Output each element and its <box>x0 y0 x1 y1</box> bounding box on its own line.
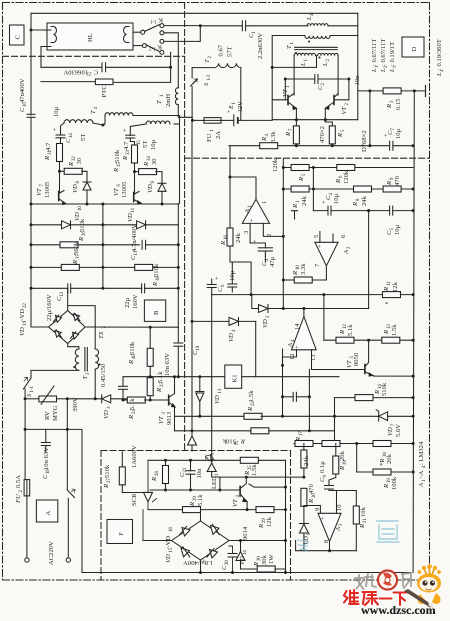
svg-text:PTC: PTC <box>101 85 108 98</box>
wire lamp right pins <box>133 32 142 45</box>
LED1 <box>206 454 221 490</box>
node T3 secondary to mains row <box>94 397 97 400</box>
svg-text:: 0.67/11T: : 0.67/11T <box>371 39 378 66</box>
svg-text:R: R <box>386 104 393 109</box>
svg-text:+: + <box>214 276 221 280</box>
svg-text:2: 2 <box>345 103 350 106</box>
svg-text:VD: VD <box>303 536 310 545</box>
op-amp A4 <box>287 317 317 362</box>
svg-text:1-2: 1-2 <box>207 74 212 81</box>
resistor R21 10k <box>353 491 368 551</box>
capacitor C17b line cap <box>41 429 51 479</box>
svg-text:R: R <box>113 168 120 173</box>
capacitor C12 22u/160V <box>46 284 71 321</box>
capacitor C21b 10n <box>179 460 203 490</box>
svg-text:R: R <box>247 407 254 412</box>
resistor R3 0.15 <box>383 88 402 110</box>
svg-text:2: 2 <box>347 246 352 249</box>
www.dzsc.com text <box>361 603 436 617</box>
lamp HL <box>47 23 133 50</box>
svg-text:T: T <box>156 99 163 104</box>
svg-text:1.5k: 1.5k <box>248 390 255 402</box>
svg-text:1-1: 1-1 <box>30 386 35 393</box>
resistor R8 24k <box>352 186 372 207</box>
svg-text:VD: VD <box>228 333 235 342</box>
resistor R40 510k <box>128 327 153 379</box>
svg-text:24k: 24k <box>235 232 242 243</box>
node starter bus <box>199 24 202 27</box>
capacitor C5b 10u <box>386 206 401 235</box>
capacitor C2 <box>285 75 349 91</box>
svg-text:5.1k: 5.1k <box>197 494 204 506</box>
wire row 210.6 <box>313 168 413 211</box>
svg-text:1.8μ /400V: 1.8μ /400V <box>183 559 213 566</box>
wire bridge1 bottom vertex to T3 left <box>68 344 79 350</box>
svg-text:R: R <box>122 156 129 161</box>
svg-text:14: 14 <box>294 323 301 330</box>
inductor T4 primary <box>90 107 180 204</box>
resistor R28 <box>151 460 169 490</box>
svg-text:510k: 510k <box>153 263 160 277</box>
resistor R30 30k 1W <box>241 554 286 573</box>
svg-text:4: 4 <box>232 329 237 332</box>
svg-text:3: 3 <box>243 230 250 234</box>
resistor R34 30 <box>135 156 163 184</box>
wire x=368.6 feedback <box>368 211 370 309</box>
svg-text:12k: 12k <box>392 281 399 292</box>
node mains node right <box>66 397 69 400</box>
svg-text:30: 30 <box>76 157 83 164</box>
wire L1 left to VT1 collector <box>293 56 295 95</box>
svg-text:~VD: ~VD <box>19 309 26 322</box>
wire A3 output down <box>329 542 331 551</box>
svg-text:VD: VD <box>147 184 154 193</box>
svg-text:47n400V: 47n400V <box>19 78 26 103</box>
svg-text:3.3k: 3.3k <box>300 263 307 275</box>
bridge rectifier 2 <box>172 521 230 560</box>
svg-text:1: 1 <box>261 201 268 204</box>
diode VD11 on row 224.8 <box>127 207 146 229</box>
svg-text:470: 470 <box>394 175 401 186</box>
resistor row443 a <box>295 441 313 447</box>
svg-text:57T: 57T <box>227 46 234 57</box>
wire oscillator box outline <box>272 36 358 120</box>
svg-text:R: R <box>292 204 299 209</box>
resistor R17 24k <box>295 431 310 477</box>
wire C2 to VT2 base <box>334 79 349 100</box>
svg-text:R: R <box>352 202 359 207</box>
svg-text:3: 3 <box>339 523 344 526</box>
svg-text:VD: VD <box>214 395 221 404</box>
ground tick on row 210.6 <box>292 211 298 219</box>
diode VD6 <box>299 524 312 551</box>
wire C4 bottom to rail294 <box>230 248 265 295</box>
svg-text:R: R <box>295 437 302 442</box>
svg-text:S: S <box>26 393 33 397</box>
fuse FU2 0.5A <box>15 475 30 558</box>
svg-text:10μ: 10μ <box>53 106 60 117</box>
capacitor C1 2.2n630V <box>200 21 308 59</box>
svg-text:K1: K1 <box>232 374 239 382</box>
wire x=313.4 connect rows <box>312 168 314 211</box>
svg-text:L: L <box>300 62 307 67</box>
wire supply row y=145.7 <box>229 145 413 147</box>
wire A2 output to R10 <box>313 266 327 280</box>
svg-text:R: R <box>261 137 268 142</box>
svg-text:10n: 10n <box>196 468 203 479</box>
resistor R12 5.1k <box>336 324 354 344</box>
diode VD9 <box>147 181 166 204</box>
resistor R4 3.3k <box>260 131 278 149</box>
svg-text:1.5k: 1.5k <box>251 464 258 476</box>
capacitor C15 10u <box>122 124 157 150</box>
label winding data <box>371 39 398 73</box>
resistor R38 20k on row443 <box>373 441 393 467</box>
wire A4 pin13 down <box>312 350 365 370</box>
svg-text:2: 2 <box>326 59 331 62</box>
resistor R6 120k <box>335 165 355 185</box>
svg-text:510k: 510k <box>104 464 111 478</box>
svg-text:5T: 5T <box>142 141 149 148</box>
inductor T4 winding a 5T <box>64 120 103 141</box>
svg-text:10n 63V: 10n 63V <box>43 447 50 470</box>
capacitor C19 10n 63V <box>164 327 201 377</box>
svg-text:4.7: 4.7 <box>123 141 130 150</box>
svg-text:+: + <box>122 128 129 132</box>
wire x=323.9 from rail294 down <box>323 295 325 341</box>
switch K1-1 <box>145 17 164 35</box>
wire row 288.3 with C12 and C15b <box>31 287 178 289</box>
capacitor C14 10u <box>52 106 74 144</box>
diode VD3 <box>67 395 128 419</box>
wire row 443.5 <box>294 443 413 445</box>
resistor R5a 120k <box>272 158 309 182</box>
wire right rail x=413.1 <box>413 91 414 573</box>
grey char pian <box>402 573 411 588</box>
svg-text:VT: VT <box>158 415 165 424</box>
svg-text:FU: FU <box>206 133 213 142</box>
node C21 wire junction <box>169 66 172 69</box>
wire row 376.7 left part <box>123 376 228 378</box>
wire row 244.8 with R36 and C13 <box>31 218 178 248</box>
resistor row443 b <box>322 441 340 447</box>
wire row 416.3 R22 <box>175 390 414 420</box>
svg-text:19: 19 <box>196 345 201 350</box>
svg-text:D: D <box>411 47 418 52</box>
svg-text:10: 10 <box>78 206 83 211</box>
node R33 bottom <box>133 170 136 173</box>
node row 189 dots <box>282 188 415 191</box>
svg-text:R: R <box>156 388 163 393</box>
wire emitter rail y=204 <box>31 203 178 205</box>
svg-text:1-2: 1-2 <box>149 46 156 51</box>
svg-text:14: 14 <box>69 133 74 138</box>
op-amp A2 <box>313 234 352 267</box>
svg-text:K: K <box>158 17 163 24</box>
svg-text:R: R <box>298 177 305 182</box>
wire row 430.8 R26 <box>175 428 335 445</box>
wire row 460.3 top <box>148 459 286 461</box>
node supply row dots <box>295 144 415 147</box>
svg-text:R: R <box>285 132 292 137</box>
node rail230 A1 output tap <box>229 176 232 179</box>
wire vertical x=192 long return rail <box>191 121 193 431</box>
inductor L4 <box>306 13 358 26</box>
resistor R24 5.1k <box>123 397 168 420</box>
node R31 bottom <box>58 170 61 173</box>
resistor R11 12k <box>383 281 401 298</box>
svg-text:~VD: ~VD <box>165 536 172 549</box>
svg-text:30k: 30k <box>261 554 268 565</box>
resistor R29a 5.1k <box>183 494 205 513</box>
resistor R25 1.5k <box>240 457 285 476</box>
svg-text:13005: 13005 <box>44 181 51 198</box>
node x368 dots <box>367 209 370 212</box>
resistor R13 1.5k <box>382 324 400 344</box>
wire right rail x=178.3 inverter <box>177 203 179 327</box>
resistor R33 4.7 <box>113 141 138 193</box>
svg-text:1: 1 <box>215 473 220 476</box>
svg-text:0.15: 0.15 <box>395 98 402 110</box>
svg-text:VT: VT <box>282 88 289 97</box>
svg-text:2: 2 <box>321 83 326 86</box>
label A1-A4 LM324 <box>418 441 427 488</box>
node row 416.3 dots <box>198 415 414 418</box>
capacitor C17 22u 160V <box>124 284 145 309</box>
svg-text:470×2: 470×2 <box>319 126 326 143</box>
svg-text:1.5k: 1.5k <box>391 324 398 336</box>
svg-text:R: R <box>383 287 390 292</box>
node VT3 collector <box>173 375 176 378</box>
node C23 ends <box>281 395 311 398</box>
watermark logo group <box>344 564 441 617</box>
node row 430.8 dots <box>191 320 311 432</box>
svg-text:VD: VD <box>72 184 79 193</box>
svg-text:2A: 2A <box>215 131 222 139</box>
transistor VT6 13005 <box>113 181 141 204</box>
red circle logo <box>378 571 397 590</box>
op-amp A1 <box>242 199 273 237</box>
svg-text:HL: HL <box>87 33 94 42</box>
transformer T1 core <box>286 41 337 59</box>
switch mains <box>67 489 75 558</box>
capacitor C23 between rails <box>283 392 310 401</box>
svg-text:: 0.19/360T: : 0.19/360T <box>436 39 443 70</box>
wire pin10 lead <box>336 491 338 514</box>
wire row 509.6 <box>148 509 286 511</box>
svg-text:2.2n630V: 2.2n630V <box>257 33 264 59</box>
svg-text:VT: VT <box>113 187 120 196</box>
relay K1 <box>225 365 242 388</box>
resistor R27 510k <box>103 452 125 493</box>
wire VT3 collector to row 376.7 <box>174 377 176 390</box>
svg-text:12k: 12k <box>266 516 273 527</box>
svg-text:3: 3 <box>107 406 112 409</box>
svg-text:28: 28 <box>155 471 160 476</box>
node pin12 to rail x282.5 <box>281 364 284 367</box>
grey char zhao <box>355 574 376 590</box>
svg-text:1: 1 <box>286 85 291 88</box>
label VD19-VD22 <box>19 303 28 336</box>
capacitor C22 on VT3 base <box>119 377 128 400</box>
wire bridge2 bottom vertex down <box>200 560 202 573</box>
svg-text:+: + <box>52 128 59 132</box>
wire A2 pin5 stub <box>319 232 321 243</box>
svg-text:120k: 120k <box>272 158 279 172</box>
svg-text:1A600V: 1A600V <box>131 445 138 468</box>
diode VD8 <box>72 181 91 205</box>
wire corner 295.6 up <box>295 541 297 551</box>
node A section box <box>36 500 57 522</box>
wire row 397.6 R14 <box>335 382 414 400</box>
label L4 winding <box>436 39 445 77</box>
svg-text:6: 6 <box>340 234 347 238</box>
node row 460.3 dots <box>164 459 213 462</box>
node mains node left <box>24 397 27 400</box>
node emitter joins on box bottom <box>295 118 327 121</box>
capacitor C20 <box>221 541 237 573</box>
svg-text:47μ: 47μ <box>269 256 276 267</box>
svg-text:SCR: SCR <box>131 493 138 506</box>
svg-text:K: K <box>157 44 162 51</box>
node row 509.6 dots <box>246 508 287 511</box>
wire x=356.7 down to row472 <box>356 444 358 473</box>
transistor VT5 8050 <box>346 340 413 376</box>
svg-text:R: R <box>386 181 393 186</box>
wire centre tap to supply <box>272 56 316 68</box>
label TX2 <box>98 326 107 340</box>
resistor R18 24k <box>220 228 242 248</box>
svg-text:1-1: 1-1 <box>150 19 157 24</box>
svg-text:R: R <box>292 271 299 276</box>
wire A2 pin6 stub <box>333 226 369 242</box>
resistor R9 470 <box>383 175 401 192</box>
node row 340.2 dots <box>367 339 415 342</box>
svg-text:VT: VT <box>341 105 348 114</box>
varistor RV MYG 390V <box>25 386 79 421</box>
wire row 308.5 with VD2 <box>252 295 369 328</box>
node R10 left on rail283 <box>282 279 285 282</box>
wire base row 490 <box>150 489 240 491</box>
node C2 ends <box>284 78 351 81</box>
svg-text:FU: FU <box>15 493 22 504</box>
svg-text:R: R <box>143 162 150 167</box>
svg-text:12V: 12V <box>237 101 244 113</box>
svg-text:VD: VD <box>165 554 172 563</box>
wire lamp lower-left pin <box>41 47 51 68</box>
transistor VT1 <box>282 85 296 120</box>
transformer T3 0.45/150 <box>73 348 107 388</box>
node bridge2 right row dots <box>239 539 287 542</box>
node B section box <box>144 300 165 321</box>
node 487.1 <box>284 486 287 489</box>
svg-text:10μ: 10μ <box>395 128 402 139</box>
red text weiku yixia (drawn strokes) <box>344 590 407 605</box>
node C22 bottom <box>122 399 125 402</box>
wire bottom rail y=572.5 <box>82 572 411 574</box>
node A3 out <box>328 549 331 552</box>
svg-text:R: R <box>103 484 110 489</box>
svg-text:*: * <box>385 301 388 308</box>
resistor R20 470 <box>301 483 317 523</box>
svg-text:2: 2 <box>208 56 213 59</box>
wire T3 right bottom down <box>94 369 96 399</box>
svg-text:2: 2 <box>266 315 271 318</box>
inductor T2 0.67/57T <box>192 44 241 120</box>
capacitor C5 10u hanging <box>228 262 237 292</box>
node row 294.6 dots <box>250 293 415 296</box>
capacitor C13 4.7n/400V <box>130 224 146 260</box>
svg-text:L: L <box>322 62 329 67</box>
svg-text:120k: 120k <box>343 170 350 184</box>
svg-text:1W: 1W <box>268 554 275 564</box>
wire T3 left bottom to rail <box>31 370 79 378</box>
svg-text:3: 3 <box>86 372 91 375</box>
wire vertical x=309.4 <box>308 370 310 431</box>
svg-text:6: 6 <box>221 284 226 287</box>
svg-text:5: 5 <box>341 129 346 132</box>
wire mid rail x=102.9 <box>102 204 104 288</box>
inductor T1 2mH <box>156 88 192 118</box>
resistor R10 3.3k <box>283 263 312 283</box>
capacitor C4b 10u <box>321 193 340 216</box>
svg-text:+: + <box>249 218 256 222</box>
inductor L3 one-turn <box>305 36 330 39</box>
node T4 primary tap <box>101 124 104 127</box>
node row 397.6 dot <box>412 396 415 399</box>
resistor R29b 12k <box>256 507 274 529</box>
node row 224.8 dots <box>30 223 105 226</box>
wire row 550.7 <box>296 550 357 552</box>
svg-text:+: + <box>317 244 324 248</box>
svg-text:17: 17 <box>299 431 304 436</box>
node row 477.1 dots <box>245 476 306 479</box>
svg-text:10μ: 10μ <box>394 224 401 235</box>
svg-text:D768×2: D768×2 <box>361 130 368 152</box>
svg-text:9: 9 <box>323 475 328 478</box>
wire VD4 row corner down to row376 <box>255 321 257 376</box>
svg-text:7: 7 <box>314 263 321 267</box>
node row 376.7 dots <box>149 375 202 378</box>
resistor PTC <box>41 79 113 98</box>
svg-text:13: 13 <box>218 388 223 393</box>
node R19 right dot <box>412 471 415 474</box>
svg-text:+: + <box>226 110 233 114</box>
svg-text:2mH: 2mH <box>165 94 172 107</box>
wire C2 to VT1 base <box>272 79 288 100</box>
svg-text:R: R <box>78 237 85 242</box>
resistor R19 100k on row472 <box>373 469 413 475</box>
capacitor C6 on left rail <box>207 276 226 295</box>
wire rail x=211 down to bottom <box>211 295 213 461</box>
wire right border rail to bottom <box>410 471 412 573</box>
switch S1-2 <box>191 68 213 121</box>
label R19 100k <box>383 476 398 490</box>
inductor L2 <box>318 53 338 67</box>
svg-text:1: 1 <box>290 42 295 45</box>
svg-text:510k: 510k <box>222 438 236 445</box>
wire left rail x=31 top <box>30 13 32 115</box>
wire AC rail right x=67.3 down <box>66 399 68 490</box>
svg-text:R: R <box>374 390 381 395</box>
wire bridge2 right vertex to rail <box>229 540 286 542</box>
svg-text:S: S <box>203 82 210 86</box>
node pin2 rail junction <box>282 235 285 238</box>
node C section box <box>10 25 25 45</box>
svg-text:AC220V: AC220V <box>48 541 55 565</box>
svg-text:R: R <box>383 330 390 335</box>
diode VD4 <box>192 317 256 342</box>
